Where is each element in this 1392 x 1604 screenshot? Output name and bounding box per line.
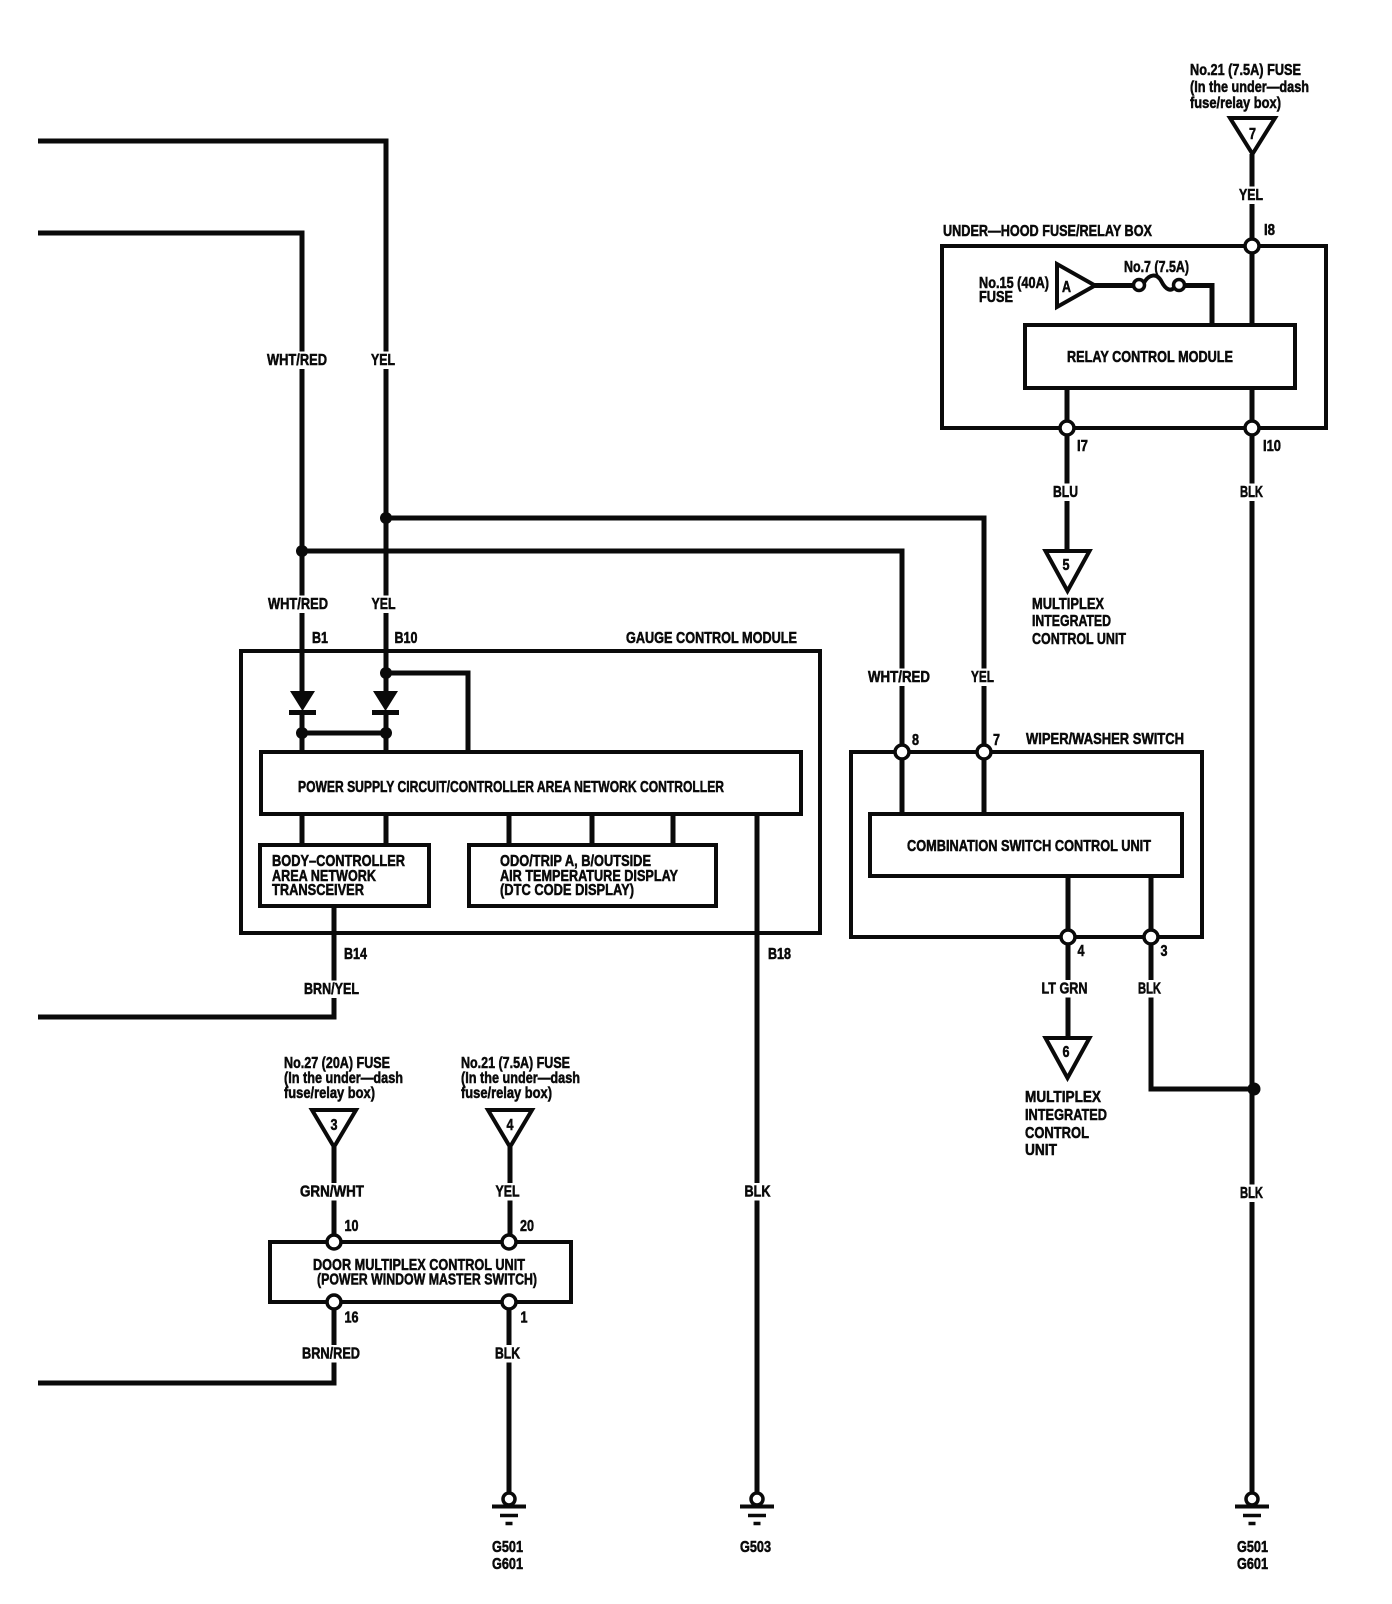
wire: triangle A to fuse No.7 [1094,283,1134,288]
svg-text:WHT/RED: WHT/RED [268,596,328,613]
svg-text:6: 6 [1063,1044,1070,1061]
fuse symbol triangle 4 [488,1110,532,1147]
ground G501/G601 (door) [492,1493,526,1524]
svg-text:I7: I7 [1077,438,1088,455]
wire: BRN/RED from pin 16 down and left [38,1302,334,1383]
node: I7 connector circle [1060,421,1074,435]
label WHT/RED (wiper) [865,669,933,687]
svg-text:GRN/WHT: GRN/WHT [300,1184,364,1201]
wire: BLU from I7 to triangle 5 [1065,435,1070,551]
svg-text:POWER SUPPLY CIRCUIT/CONTROLLE: POWER SUPPLY CIRCUIT/CONTROLLER AREA NET… [298,779,724,796]
wire: top feed horizontal y=141 [38,139,386,144]
svg-text:FUSE: FUSE [979,289,1013,306]
svg-text:16: 16 [345,1310,359,1327]
wire: fuse No.7 to relay control module [1183,286,1212,326]
node: pin 1 connector circle [502,1295,516,1309]
svg-text:fuse/relay box): fuse/relay box) [284,1085,375,1102]
wire: pin 8 into combination unit [900,752,905,814]
wire: power box to transceiver x=302 [300,814,305,845]
wire: B18 BLK from power box to ground G503 [755,814,760,1492]
label YEL lower [369,596,399,614]
fuse No.7 element (circle-squiggle-circle) [1144,276,1176,290]
node: pin 10 connector circle [327,1235,341,1249]
svg-text:10: 10 [345,1218,359,1235]
node: junction (1254,1089) [1248,1083,1261,1096]
svg-text:YEL: YEL [372,596,396,613]
svg-text:1: 1 [521,1310,528,1327]
svg-text:(POWER WINDOW MASTER SWITCH): (POWER WINDOW MASTER SWITCH) [317,1272,537,1289]
svg-text:B14: B14 [344,946,367,963]
svg-text:4: 4 [507,1117,514,1134]
wire: power box to display x=509 [507,814,512,845]
svg-text:BLK: BLK [1240,1185,1263,1202]
wire: relay module to I10 [1250,388,1255,428]
wire: combination unit to pin 3 [1149,876,1154,937]
svg-text:B1: B1 [312,630,328,647]
svg-text:BLK: BLK [1240,484,1263,501]
svg-text:No.21 (7.5A) FUSE: No.21 (7.5A) FUSE [1190,62,1301,79]
wire: YEL triangle 7 through I8 to relay module [1250,154,1255,325]
svg-text:G501: G501 [1237,1539,1268,1556]
wire: YEL vertical x=386 from feed to gauge module [384,139,389,695]
svg-text:TRANSCEIVER: TRANSCEIVER [272,882,364,899]
svg-text:I8: I8 [1264,222,1275,239]
svg-text:G503: G503 [740,1539,771,1556]
wiper/washer switch box [851,752,1202,937]
svg-text:G601: G601 [492,1556,523,1573]
svg-text:UNDER—HOOD FUSE/RELAY BOX: UNDER—HOOD FUSE/RELAY BOX [943,223,1152,240]
node: pin 16 connector circle [327,1295,341,1309]
wire: YEL branch y=518 to wiper pin 7 [386,518,984,754]
wire: power box to transceiver x=386 [384,814,389,845]
wire: main BLK from I10 to ground G501/G601 [1250,435,1255,1492]
label GRN/WHT [297,1183,367,1201]
wire: YEL triangle 4 to pin 20 [508,1147,513,1242]
svg-text:GAUGE CONTROL MODULE: GAUGE CONTROL MODULE [626,630,797,647]
node: I8 connector circle [1245,239,1259,253]
wire: WHT/RED vertical x=302 from feed to gauge module [300,231,305,695]
wire: BLK from pin 1 to ground G501/G601 [507,1302,512,1492]
label BRN/RED [299,1345,363,1363]
svg-text:YEL: YEL [971,669,994,686]
svg-text:YEL: YEL [1239,187,1263,204]
node: junction WHT/RED (302,551) [296,545,308,557]
svg-text:5: 5 [1063,557,1070,574]
label BLK on B18 wire [742,1183,774,1201]
gauge control module box [241,651,820,933]
svg-text:INTEGRATED: INTEGRATED [1032,613,1111,630]
wire: pin 7 into combination unit [982,752,987,814]
svg-text:UNIT: UNIT [1025,1142,1057,1159]
wire: tie bar between diodes y=733 [302,731,386,736]
wire: WHT/RED branch y=551 to wiper pin 8 [302,551,902,754]
fuse symbol triangle 5 [1046,551,1090,591]
svg-text:20: 20 [520,1218,534,1235]
svg-text:WIPER/WASHER SWITCH: WIPER/WASHER SWITCH [1026,731,1184,748]
wire: D2 cathode to power supply box [384,712,389,754]
svg-text:G601: G601 [1237,1556,1268,1573]
wire: B14 BRN/YEL from transceiver down and left [38,906,334,1017]
node: pin 7 connector circle [977,745,991,759]
node: pin 4 connector circle [1061,930,1075,944]
svg-text:4: 4 [1078,943,1085,960]
svg-text:G501: G501 [492,1539,523,1556]
label YEL (bottom) [493,1183,523,1201]
label YEL upper [368,352,398,370]
label YEL (wiper) [968,669,997,687]
wire: power box to display x=673 [671,814,676,845]
diode D2 on B10 line [373,691,398,711]
label WHT/RED lower [265,596,331,614]
node: pin 20 connector circle [502,1235,516,1249]
svg-text:COMBINATION SWITCH CONTROL UNI: COMBINATION SWITCH CONTROL UNIT [907,838,1151,855]
fuse symbol triangle 7 [1230,118,1275,154]
svg-text:7: 7 [993,732,1000,749]
node: pin 8 connector circle [895,745,909,759]
ground G503 [740,1493,774,1524]
svg-text:3: 3 [1161,943,1168,960]
body-controller area network transceiver box [260,845,429,906]
svg-text:YEL: YEL [371,352,395,369]
label YEL (top right) [1236,187,1266,205]
wire: GRN/WHT triangle 3 to pin 10 [332,1147,337,1242]
node: junction on B10 wire (386,673) [380,667,392,679]
label BLK (pin 3) [1135,980,1164,998]
svg-text:3: 3 [331,1117,338,1134]
wire: D1 cathode to power supply box [300,712,305,754]
svg-text:No.7 (7.5A): No.7 (7.5A) [1124,259,1189,276]
svg-text:RELAY CONTROL MODULE: RELAY CONTROL MODULE [1067,349,1233,366]
wire: LT GRN pin 4 to triangle 6 [1066,944,1071,1038]
fuse symbol triangle 6 [1046,1038,1090,1078]
svg-text:BRN/YEL: BRN/YEL [304,981,359,998]
wire: branch from (386,673) to power supply box [386,673,468,754]
node: junction (302,733) [296,727,308,739]
svg-text:CONTROL UNIT: CONTROL UNIT [1032,631,1126,648]
svg-text:CONTROL: CONTROL [1025,1125,1089,1142]
svg-text:BRN/RED: BRN/RED [302,1346,360,1363]
wire: power box to display x=592 [590,814,595,845]
label BLK (right lower) [1237,1185,1266,1203]
door multiplex control unit box [270,1242,571,1302]
label BLK (door) [492,1345,523,1363]
wire: combination unit to pin 4 [1066,876,1071,937]
label BLU [1050,484,1081,502]
svg-text:7: 7 [1249,126,1256,143]
svg-text:YEL: YEL [496,1184,520,1201]
ground G501/G601 (main BLK) [1235,1493,1269,1524]
label WHT/RED upper [264,352,330,370]
svg-text:(DTC CODE DISPLAY): (DTC CODE DISPLAY) [500,882,634,899]
svg-text:B10: B10 [395,630,418,647]
svg-text:MULTIPLEX: MULTIPLEX [1032,596,1104,613]
svg-text:LT GRN: LT GRN [1042,981,1088,998]
svg-text:B18: B18 [768,946,791,963]
wire: second feed horizontal y=233 [38,231,302,236]
svg-text:WHT/RED: WHT/RED [868,669,930,686]
combination switch control unit box [870,814,1182,876]
node: junction YEL (386,518) [380,512,392,524]
label BLK (right upper) [1237,484,1266,502]
svg-text:BLU: BLU [1053,484,1078,501]
wire: BLK pin 3 joining main BLK [1151,944,1254,1089]
svg-text:BLK: BLK [495,1346,520,1363]
odo/trip display box [469,845,716,906]
svg-text:fuse/relay box): fuse/relay box) [461,1085,552,1102]
svg-text:I10: I10 [1263,438,1281,455]
power supply circuit / CAN controller box [261,752,801,814]
under-hood fuse/relay box [942,246,1326,428]
svg-text:BLK: BLK [1138,981,1161,998]
svg-text:INTEGRATED: INTEGRATED [1025,1107,1107,1124]
fuse symbol triangle 3 [312,1110,356,1147]
node: pin 3 connector circle [1144,930,1158,944]
svg-text:A: A [1062,279,1071,296]
svg-text:WHT/RED: WHT/RED [267,352,327,369]
wire: relay module to I7 [1065,388,1070,428]
label LT GRN [1039,980,1091,998]
node: I10 connector circle [1245,421,1259,435]
label BRN/YEL [301,981,362,999]
svg-text:BLK: BLK [745,1184,771,1201]
fuse symbol triangle A (right-pointing) [1057,264,1095,307]
svg-text:fuse/relay box): fuse/relay box) [1190,95,1281,112]
relay control module box [1025,325,1295,388]
diode D1 on B1 line [290,691,315,711]
svg-text:MULTIPLEX: MULTIPLEX [1025,1089,1101,1106]
node: junction (386,733) [380,727,392,739]
svg-text:8: 8 [912,732,919,749]
svg-text:(In the under—dash: (In the under—dash [1190,79,1309,96]
